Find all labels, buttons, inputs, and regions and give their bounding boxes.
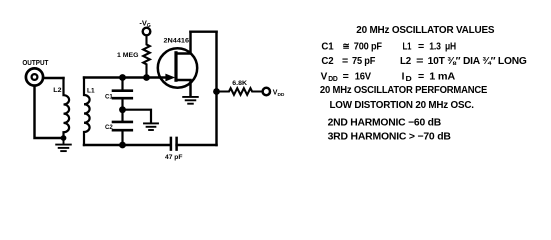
inductor L2 <box>64 78 70 138</box>
terminal VDD <box>263 88 270 95</box>
svg-text:C2: C2 <box>105 124 113 131</box>
svg-text:20 MHz OSCILLATOR PERFORMANCE: 20 MHz OSCILLATOR PERFORMANCE <box>320 85 488 96</box>
node L2 ground junction <box>61 135 67 141</box>
svg-text:LOW DISTORTION 20 MHz OSC.: LOW DISTORTION 20 MHz OSC. <box>330 100 475 111</box>
ground <box>56 138 71 151</box>
svg-text:1 MEG: 1 MEG <box>117 52 139 59</box>
capacitor C1 <box>113 78 132 110</box>
ground source <box>183 97 198 104</box>
node gate R1 junction <box>143 74 150 81</box>
svg-text:6.8K: 6.8K <box>232 80 247 87</box>
wire bottom rail <box>84 144 171 146</box>
svg-text:47 pF: 47 pF <box>165 154 183 161</box>
svg-text:OUTPUT: OUTPUT <box>22 60 49 67</box>
svg-text:3RD HARMONIC > −70 dB: 3RD HARMONIC > −70 dB <box>328 132 451 143</box>
svg-text:L1: L1 <box>87 88 95 95</box>
wire <box>123 110 152 123</box>
node C2 rail junction <box>119 142 126 149</box>
svg-text:C1: C1 <box>105 93 113 100</box>
node drain 6.8K junction <box>213 88 220 95</box>
output connector J1 <box>26 68 43 85</box>
terminal -VG <box>143 28 151 36</box>
wire right rail <box>215 32 217 145</box>
wire <box>43 77 63 79</box>
resistor R2 6.8K <box>217 88 263 95</box>
resistor R1 1 MEG <box>143 35 150 77</box>
svg-text:2N4416: 2N4416 <box>164 37 190 44</box>
wire gate rail <box>84 76 167 78</box>
svg-text:2ND HARMONIC −60 dB: 2ND HARMONIC −60 dB <box>328 118 441 129</box>
wire top rail <box>191 30 217 32</box>
inductor L1 <box>84 78 90 146</box>
transistor Q1 2N4416 <box>158 32 197 97</box>
wire <box>35 86 64 138</box>
node C1 C2 junction <box>119 106 126 113</box>
capacitor C3 47pF <box>171 138 177 150</box>
svg-text:20 MHz OSCILLATOR VALUES: 20 MHz OSCILLATOR VALUES <box>356 25 495 36</box>
wire <box>177 144 217 146</box>
text block: oscillator values <box>320 25 527 143</box>
svg-text:L2: L2 <box>53 87 62 94</box>
capacitor C2 <box>113 110 132 145</box>
node gate C1 junction <box>119 74 126 81</box>
ground C junction <box>144 123 158 130</box>
